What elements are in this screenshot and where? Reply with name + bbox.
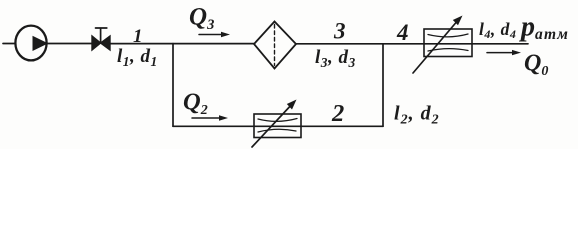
- valve (shut-off): [92, 28, 110, 50]
- svg-text:l2, d2: l2, d2: [394, 103, 440, 128]
- svg-text:2: 2: [331, 100, 344, 127]
- svg-text:pатм: pатм: [519, 12, 569, 44]
- node 4 branch: right vertical wire: [382, 44, 384, 127]
- flow arrow Q2: [192, 115, 228, 120]
- svg-text:l1, d1: l1, d1: [117, 46, 158, 69]
- svg-text:Q2: Q2: [183, 89, 208, 119]
- wire valve to filter: [110, 43, 254, 45]
- filter F: [254, 22, 296, 69]
- throttle valve 4 (adjustable): [413, 16, 472, 74]
- svg-text:l4, d4: l4, d4: [479, 19, 516, 41]
- throttle valve 2 (adjustable): [252, 100, 301, 148]
- wire filter to outlet: [296, 43, 528, 45]
- pump P: [15, 26, 47, 61]
- svg-text:3: 3: [333, 19, 346, 44]
- wire inlet to pump: [3, 43, 16, 45]
- svg-text:Q3: Q3: [189, 4, 214, 34]
- svg-text:1: 1: [133, 26, 143, 47]
- svg-text:4: 4: [396, 20, 409, 45]
- flow arrow Q0 outlet: [487, 50, 521, 55]
- svg-text:l3, d3: l3, d3: [315, 47, 356, 70]
- lower branch wire: [173, 125, 383, 127]
- node 1 branch: left vertical wire: [172, 44, 174, 127]
- svg-text:Q0: Q0: [524, 51, 548, 80]
- wire pump to valve: [47, 43, 92, 45]
- flow arrow Q3: [199, 32, 230, 37]
